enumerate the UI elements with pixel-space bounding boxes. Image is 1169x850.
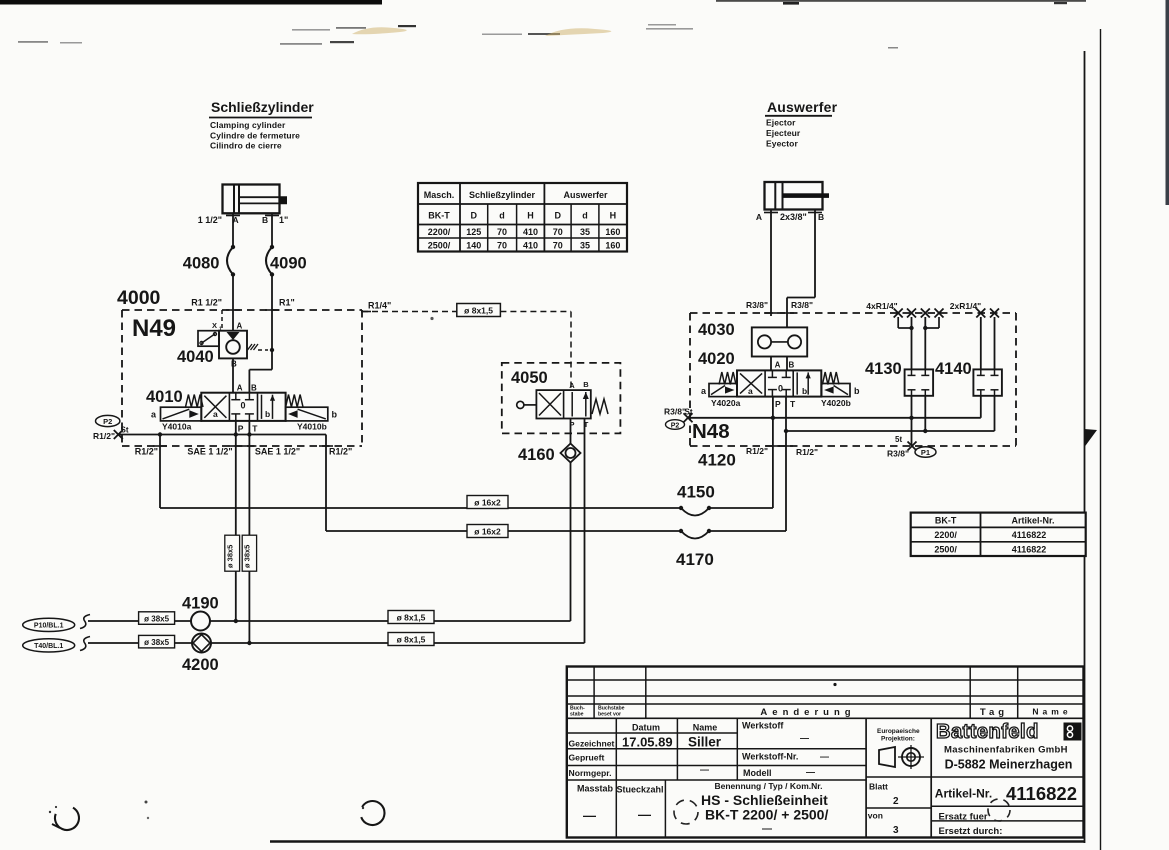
- svg-text:BK-T: BK-T: [935, 516, 957, 526]
- svg-text:Modell: Modell: [743, 768, 772, 778]
- svg-text:A: A: [775, 361, 781, 370]
- svg-text:—: —: [638, 807, 651, 822]
- svg-text:2200/: 2200/: [934, 530, 957, 540]
- svg-text:17.05.89: 17.05.89: [622, 735, 673, 750]
- svg-text:Battenfeld: Battenfeld: [936, 721, 1039, 743]
- svg-text:Schließzylinder: Schließzylinder: [211, 99, 314, 115]
- svg-text:35: 35: [580, 227, 590, 237]
- svg-text:b: b: [854, 386, 860, 396]
- svg-text:Schließzylinder: Schließzylinder: [469, 190, 536, 200]
- svg-text:410: 410: [523, 240, 538, 250]
- svg-text:d: d: [499, 211, 505, 221]
- svg-text:1": 1": [279, 215, 288, 225]
- svg-text:70: 70: [553, 240, 563, 250]
- svg-text:4170: 4170: [676, 550, 714, 569]
- svg-text:4200: 4200: [182, 656, 219, 674]
- svg-text:Ersatz fuer: Ersatz fuer: [939, 812, 988, 823]
- svg-text:Benennung / Typ / Kom.Nr.: Benennung / Typ / Kom.Nr.: [715, 781, 823, 791]
- svg-text:P: P: [775, 399, 781, 409]
- svg-text:160: 160: [605, 240, 620, 250]
- svg-text:Name: Name: [1032, 707, 1071, 717]
- svg-text:ø 38x5: ø 38x5: [243, 545, 252, 568]
- svg-text:Cilindro de cierre: Cilindro de cierre: [210, 141, 282, 151]
- svg-text:SAE 1 1/2": SAE 1 1/2": [255, 447, 300, 457]
- svg-text:410: 410: [523, 227, 538, 237]
- svg-text:Stueckzahl: Stueckzahl: [617, 785, 664, 795]
- svg-text:R3/8": R3/8": [664, 407, 686, 417]
- svg-text:—: —: [700, 765, 709, 775]
- svg-text:140: 140: [466, 240, 481, 250]
- svg-text:P1: P1: [921, 448, 930, 457]
- svg-text:Cylindre de fermeture: Cylindre de fermeture: [210, 131, 300, 141]
- svg-text:T: T: [252, 424, 258, 434]
- svg-text:D: D: [554, 211, 561, 221]
- svg-text:ø 38x5: ø 38x5: [226, 545, 235, 568]
- svg-text:A: A: [233, 215, 239, 225]
- svg-text:Name: Name: [693, 723, 718, 733]
- svg-text:R1/2": R1/2": [135, 447, 158, 457]
- svg-text:b: b: [265, 409, 270, 419]
- svg-text:Ejecteur: Ejecteur: [766, 128, 801, 138]
- svg-text:2500/: 2500/: [934, 544, 957, 554]
- svg-text:4116822: 4116822: [1012, 530, 1047, 540]
- svg-text:4130: 4130: [865, 360, 902, 378]
- svg-text:ø 8x1,5: ø 8x1,5: [464, 305, 493, 315]
- svg-text:4040: 4040: [177, 348, 214, 366]
- svg-text:4120: 4120: [698, 451, 736, 470]
- svg-text:Ersetzt durch:: Ersetzt durch:: [939, 826, 1003, 837]
- svg-text:Ejector: Ejector: [766, 118, 796, 128]
- svg-text:160: 160: [605, 227, 620, 237]
- svg-text:H: H: [527, 211, 534, 221]
- svg-text:3: 3: [893, 825, 899, 836]
- svg-text:R3/8": R3/8": [887, 449, 909, 459]
- svg-text:von: von: [868, 811, 883, 821]
- svg-text:R1/4": R1/4": [368, 301, 391, 311]
- svg-text:P2: P2: [671, 423, 680, 430]
- svg-text:Y4020b: Y4020b: [821, 398, 851, 408]
- svg-text:Y4020a: Y4020a: [711, 398, 741, 408]
- svg-text:—: —: [762, 824, 772, 835]
- svg-text:B: B: [251, 384, 257, 393]
- svg-text:Y4010a: Y4010a: [162, 422, 192, 432]
- svg-text:—: —: [806, 767, 815, 777]
- svg-text:B: B: [583, 380, 589, 389]
- svg-text:4xR1/4": 4xR1/4": [866, 301, 897, 311]
- svg-text:Aenderung: Aenderung: [760, 707, 855, 718]
- svg-text:4030: 4030: [698, 321, 735, 339]
- svg-text:2x3/8": 2x3/8": [780, 212, 807, 222]
- svg-text:4140: 4140: [935, 360, 972, 378]
- svg-text:BK-T 2200/ + 2500/: BK-T 2200/ + 2500/: [705, 807, 828, 823]
- svg-text:4090: 4090: [270, 255, 307, 273]
- svg-text:T: T: [790, 399, 796, 409]
- svg-text:4080: 4080: [183, 255, 220, 273]
- svg-text:T40/BL.1: T40/BL.1: [34, 643, 63, 650]
- svg-text:R1/2": R1/2": [329, 447, 352, 457]
- svg-text:—: —: [820, 752, 829, 762]
- svg-text:A: A: [569, 381, 575, 390]
- svg-text:70: 70: [497, 240, 507, 250]
- svg-text:R3/8": R3/8": [791, 300, 813, 310]
- svg-text:N49: N49: [132, 315, 176, 342]
- svg-text:BK-T: BK-T: [428, 211, 450, 221]
- svg-text:R1/2": R1/2": [746, 446, 768, 456]
- svg-text:ø 38x5: ø 38x5: [144, 638, 169, 647]
- svg-text:b: b: [332, 410, 338, 420]
- svg-text:2xR1/4": 2xR1/4": [950, 301, 981, 311]
- svg-text:4020: 4020: [698, 350, 735, 368]
- svg-text:ø 8x1,5: ø 8x1,5: [397, 613, 426, 623]
- svg-text:Blatt: Blatt: [869, 782, 888, 792]
- svg-text:70: 70: [497, 227, 507, 237]
- svg-text:H: H: [610, 211, 617, 221]
- svg-text:4150: 4150: [677, 483, 715, 502]
- svg-text:R1/2": R1/2": [796, 447, 818, 457]
- svg-text:R1 1/2": R1 1/2": [191, 298, 222, 308]
- svg-text:a: a: [213, 409, 218, 419]
- svg-text:N48: N48: [692, 420, 730, 443]
- svg-text:R1": R1": [279, 298, 295, 308]
- svg-text:ø 16x2: ø 16x2: [474, 527, 501, 537]
- svg-text:B: B: [789, 361, 795, 370]
- svg-text:R3/8": R3/8": [746, 300, 768, 310]
- svg-text:Masch.: Masch.: [424, 190, 455, 200]
- svg-text:Maschinenfabriken GmbH: Maschinenfabriken GmbH: [944, 745, 1068, 756]
- svg-text:4050: 4050: [511, 369, 548, 387]
- svg-text:4190: 4190: [182, 595, 219, 613]
- svg-text:Werkstoff: Werkstoff: [742, 721, 784, 731]
- svg-text:Y4010b: Y4010b: [297, 422, 327, 432]
- svg-text:Europaeische: Europaeische: [877, 728, 920, 735]
- svg-text:1 1/2": 1 1/2": [198, 215, 222, 225]
- svg-text:A: A: [237, 384, 243, 393]
- svg-text:A: A: [756, 212, 762, 222]
- svg-text:Clamping cylinder: Clamping cylinder: [210, 120, 286, 130]
- svg-text:Siller: Siller: [688, 735, 722, 750]
- svg-text:b: b: [802, 386, 807, 396]
- svg-text:70: 70: [553, 227, 563, 237]
- svg-text:D-5882 Meinerzhagen: D-5882 Meinerzhagen: [945, 758, 1073, 772]
- svg-text:P2: P2: [103, 417, 112, 426]
- svg-text:B: B: [818, 212, 824, 222]
- svg-text:ø 16x2: ø 16x2: [474, 498, 501, 508]
- svg-text:Eyector: Eyector: [766, 139, 798, 149]
- svg-text:125: 125: [466, 227, 481, 237]
- svg-text:B: B: [231, 360, 237, 369]
- svg-text:Gezeichnet: Gezeichnet: [569, 739, 615, 749]
- svg-text:4010: 4010: [146, 388, 183, 406]
- svg-text:2500/: 2500/: [428, 240, 451, 250]
- svg-text:4116822: 4116822: [1012, 544, 1047, 554]
- svg-text:Datum: Datum: [632, 723, 660, 733]
- svg-text:Tag: Tag: [980, 707, 1008, 718]
- svg-text:—: —: [583, 808, 596, 823]
- svg-text:ø 38x5: ø 38x5: [144, 614, 169, 623]
- svg-text:stabe: stabe: [570, 712, 584, 718]
- svg-text:X: X: [212, 321, 217, 330]
- svg-text:d: d: [582, 211, 588, 221]
- svg-text:P: P: [238, 424, 244, 434]
- svg-text:P10/BL.1: P10/BL.1: [34, 623, 64, 630]
- svg-text:beset vor: beset vor: [598, 712, 621, 718]
- svg-text:Projektion:: Projektion:: [881, 736, 915, 743]
- svg-text:Normgepr.: Normgepr.: [569, 768, 612, 778]
- svg-text:4160: 4160: [518, 446, 555, 464]
- svg-text:2200/: 2200/: [428, 227, 451, 237]
- svg-text:A: A: [237, 322, 243, 331]
- svg-text:0: 0: [241, 401, 246, 411]
- svg-text:Artikel-Nr.: Artikel-Nr.: [935, 787, 992, 801]
- svg-text:4116822: 4116822: [1006, 783, 1077, 804]
- svg-text:ø 8x1,5: ø 8x1,5: [397, 635, 426, 645]
- svg-text:Auswerfer: Auswerfer: [563, 190, 608, 200]
- svg-text:Auswerfer: Auswerfer: [767, 99, 838, 115]
- svg-text:Masstab: Masstab: [577, 784, 614, 794]
- svg-text:—: —: [800, 733, 809, 743]
- svg-text:4000: 4000: [117, 287, 161, 309]
- svg-text:D: D: [471, 211, 478, 221]
- svg-text:R1/2": R1/2": [93, 431, 115, 441]
- svg-text:2: 2: [893, 796, 899, 807]
- svg-text:5t: 5t: [895, 435, 902, 444]
- svg-text:35: 35: [580, 240, 590, 250]
- svg-text:0: 0: [778, 384, 783, 394]
- svg-text:Artikel-Nr.: Artikel-Nr.: [1011, 516, 1054, 526]
- svg-text:Geprueft: Geprueft: [569, 753, 605, 763]
- svg-text:Werkstoff-Nr.: Werkstoff-Nr.: [742, 752, 798, 762]
- svg-text:SAE 1 1/2": SAE 1 1/2": [187, 447, 232, 457]
- svg-text:a: a: [748, 386, 753, 396]
- svg-text:B: B: [262, 215, 268, 225]
